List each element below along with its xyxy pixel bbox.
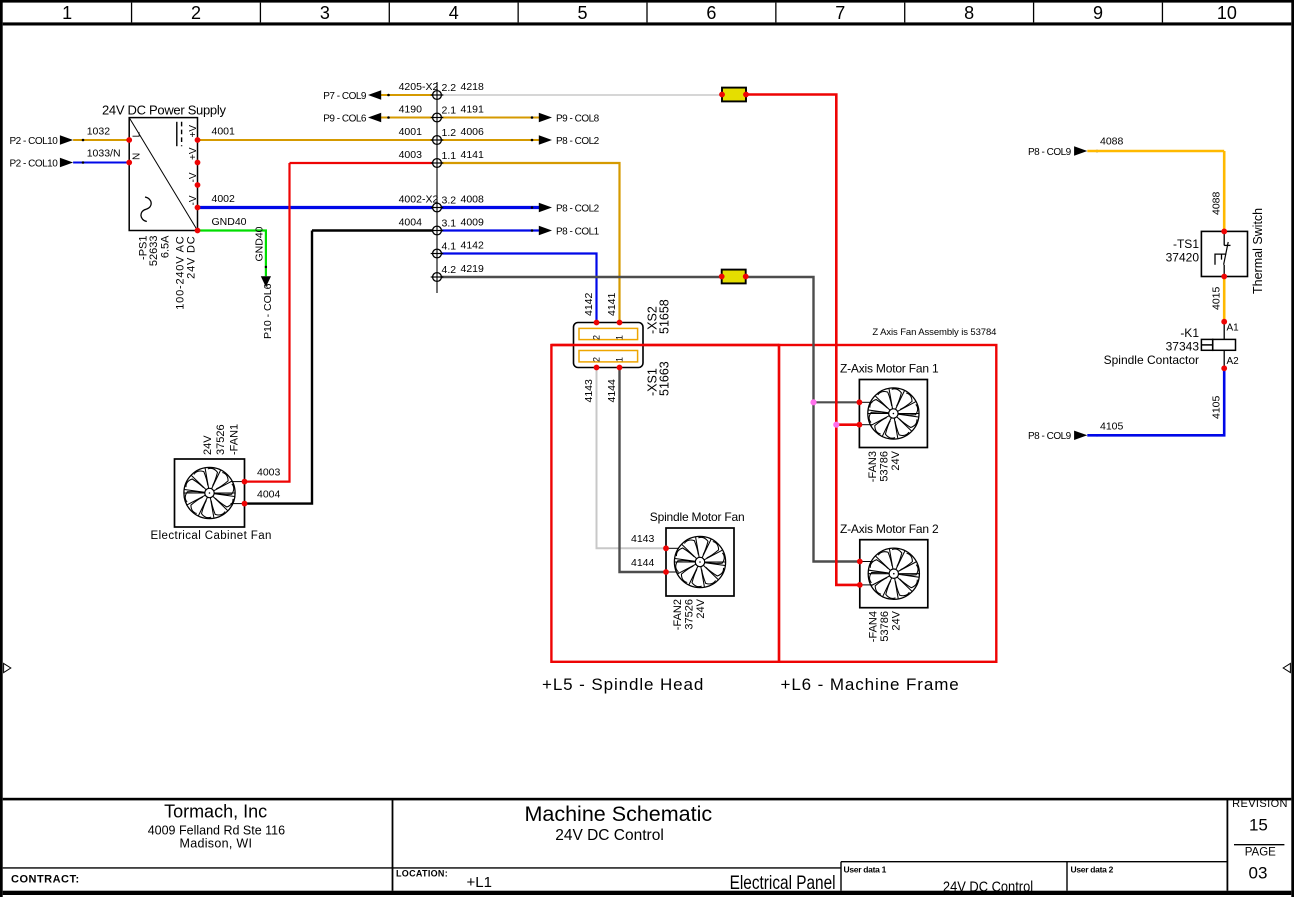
svg-text:4142: 4142 [583, 292, 595, 316]
svg-text:4004: 4004 [399, 216, 423, 228]
svg-text:-K1: -K1 [1180, 326, 1199, 340]
svg-text:P8 - COL1: P8 - COL1 [556, 226, 600, 237]
svg-text:4143: 4143 [583, 379, 595, 403]
svg-text:Electrical Panel: Electrical Panel [730, 871, 836, 893]
svg-text:4: 4 [449, 3, 459, 23]
svg-text:User data 1: User data 1 [844, 864, 887, 874]
svg-text:+V: +V [188, 147, 199, 160]
svg-text:53786: 53786 [879, 451, 891, 482]
svg-text:4008: 4008 [461, 193, 485, 205]
svg-text:Electrical Cabinet Fan: Electrical Cabinet Fan [151, 530, 272, 542]
svg-text:9: 9 [1093, 3, 1103, 23]
svg-text:4002-X2: 4002-X2 [399, 193, 439, 205]
svg-text:37526: 37526 [215, 424, 227, 455]
svg-text:-FAN3: -FAN3 [867, 451, 879, 482]
svg-text:P7 - COL9: P7 - COL9 [323, 91, 367, 102]
svg-text:4105: 4105 [1100, 420, 1124, 432]
svg-text:1.2: 1.2 [442, 127, 457, 139]
svg-text:A1: A1 [1227, 323, 1240, 334]
svg-text:+L6 - Machine Frame: +L6 - Machine Frame [781, 675, 960, 694]
svg-text:37526: 37526 [684, 599, 696, 630]
svg-text:4105: 4105 [1211, 395, 1223, 419]
svg-text:2: 2 [191, 3, 201, 23]
svg-text:4015: 4015 [1211, 286, 1223, 310]
svg-text:3: 3 [320, 3, 330, 23]
svg-text:1033/N: 1033/N [87, 148, 121, 160]
svg-text:Tormach, Inc: Tormach, Inc [164, 802, 267, 822]
svg-text:P8 - COL9: P8 - COL9 [1028, 147, 1072, 158]
svg-text:P10 - COL6: P10 - COL6 [262, 283, 274, 339]
svg-text:24V DC Control: 24V DC Control [943, 878, 1033, 895]
svg-text:24V: 24V [202, 435, 214, 455]
svg-text:15: 15 [1249, 816, 1268, 835]
svg-text:L: L [132, 132, 143, 138]
svg-text:-V: -V [188, 195, 199, 205]
svg-text:Spindle Contactor: Spindle Contactor [1104, 353, 1199, 367]
svg-text:P8 - COL9: P8 - COL9 [1028, 431, 1072, 442]
svg-text:1.1: 1.1 [442, 150, 457, 162]
svg-text:Z Axis Fan Assembly is 53784: Z Axis Fan Assembly is 53784 [872, 327, 996, 338]
svg-text:24V DC Power Supply: 24V DC Power Supply [102, 103, 226, 118]
svg-text:4.2: 4.2 [442, 264, 457, 276]
svg-text:4141: 4141 [461, 149, 485, 161]
svg-text:4144: 4144 [631, 557, 655, 569]
svg-text:P8 - COL2: P8 - COL2 [556, 203, 600, 214]
svg-text:Z-Axis Motor Fan 1: Z-Axis Motor Fan 1 [840, 362, 939, 376]
svg-text:4190: 4190 [399, 103, 423, 115]
svg-text:1: 1 [615, 357, 625, 362]
svg-text:+L5 - Spindle Head: +L5 - Spindle Head [542, 675, 704, 694]
svg-text:51663: 51663 [658, 361, 672, 396]
svg-text:4.1: 4.1 [442, 241, 457, 253]
svg-text:Z-Axis Motor Fan 2: Z-Axis Motor Fan 2 [840, 522, 939, 536]
svg-text:-FAN4: -FAN4 [868, 611, 880, 642]
svg-text:4205-X2: 4205-X2 [399, 81, 439, 93]
svg-text:GND40: GND40 [212, 216, 247, 228]
svg-text:1032: 1032 [87, 125, 111, 137]
svg-text:8: 8 [964, 3, 974, 23]
svg-text:2: 2 [592, 335, 602, 340]
svg-text:53786: 53786 [879, 611, 891, 642]
svg-text:Thermal Switch: Thermal Switch [1251, 208, 1265, 294]
svg-text:5: 5 [578, 3, 588, 23]
svg-text:4191: 4191 [461, 103, 485, 115]
svg-text:P2 - COL10: P2 - COL10 [10, 158, 59, 169]
svg-text:37420: 37420 [1166, 251, 1200, 265]
svg-text:1: 1 [62, 3, 72, 23]
svg-text:Madison, WI: Madison, WI [180, 837, 253, 851]
svg-text:4003: 4003 [399, 149, 423, 161]
svg-text:REVISION: REVISION [1232, 798, 1288, 810]
svg-text:4219: 4219 [461, 263, 485, 275]
svg-text:51658: 51658 [658, 299, 672, 334]
svg-text:-V: -V [188, 172, 199, 182]
svg-text:7: 7 [835, 3, 845, 23]
svg-text:4006: 4006 [461, 126, 485, 138]
svg-text:P2 - COL10: P2 - COL10 [10, 136, 59, 147]
svg-text:6: 6 [706, 3, 716, 23]
svg-text:1: 1 [615, 335, 625, 340]
svg-text:4009: 4009 [461, 216, 485, 228]
svg-text:4144: 4144 [606, 379, 618, 403]
svg-text:4218: 4218 [461, 81, 485, 93]
svg-text:LOCATION:: LOCATION: [396, 869, 448, 879]
svg-text:P8 - COL2: P8 - COL2 [556, 136, 600, 147]
svg-text:+V: +V [188, 125, 199, 138]
svg-text:P9 - COL8: P9 - COL8 [556, 113, 600, 124]
svg-text:-TS1: -TS1 [1173, 237, 1199, 251]
svg-text:4003: 4003 [257, 466, 281, 478]
svg-text:4002: 4002 [212, 193, 236, 205]
svg-text:4088: 4088 [1100, 135, 1124, 147]
svg-text:10: 10 [1217, 3, 1237, 23]
svg-text:-FAN1: -FAN1 [229, 424, 241, 455]
svg-text:-FAN2: -FAN2 [672, 599, 684, 630]
svg-text:4141: 4141 [606, 292, 618, 316]
svg-text:PAGE: PAGE [1245, 847, 1276, 859]
svg-text:GND40: GND40 [254, 226, 266, 261]
svg-text:2.1: 2.1 [442, 105, 457, 117]
svg-text:24V: 24V [695, 598, 707, 618]
svg-text:Spindle Motor Fan: Spindle Motor Fan [650, 510, 745, 524]
svg-text:37343: 37343 [1166, 340, 1200, 354]
svg-text:4088: 4088 [1211, 191, 1223, 215]
svg-text:N: N [132, 153, 143, 160]
svg-text:24V: 24V [890, 450, 902, 470]
svg-text:4001: 4001 [212, 125, 236, 137]
svg-text:4142: 4142 [461, 239, 485, 251]
svg-text:A2: A2 [1227, 356, 1240, 367]
svg-text:4143: 4143 [631, 533, 655, 545]
svg-text:2: 2 [592, 357, 602, 362]
svg-text:3.2: 3.2 [442, 195, 457, 207]
svg-text:03: 03 [1249, 864, 1268, 883]
svg-text:24V: 24V [891, 610, 903, 630]
svg-text:3.1: 3.1 [442, 218, 457, 230]
svg-text:4001: 4001 [399, 126, 423, 138]
svg-text:CONTRACT:: CONTRACT: [11, 874, 80, 886]
svg-text:6.5A: 6.5A [160, 235, 172, 258]
svg-text:User data 2: User data 2 [1071, 864, 1114, 874]
svg-text:4004: 4004 [257, 488, 281, 500]
svg-text:4009 Felland Rd Ste 116: 4009 Felland Rd Ste 116 [148, 824, 285, 838]
svg-text:24V DC Control: 24V DC Control [555, 827, 664, 844]
svg-text:52633: 52633 [148, 236, 160, 267]
svg-text:24V DC: 24V DC [186, 236, 198, 279]
svg-text:Machine Schematic: Machine Schematic [524, 802, 712, 826]
svg-text:P9 - COL6: P9 - COL6 [323, 113, 367, 124]
svg-text:2.2: 2.2 [442, 82, 457, 94]
svg-text:+L1: +L1 [467, 874, 492, 891]
